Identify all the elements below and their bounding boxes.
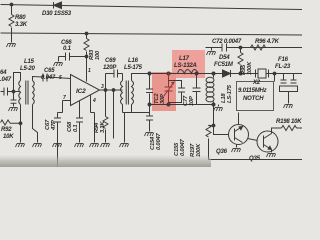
crystal X2 xyxy=(256,70,269,78)
wire stub x124 xyxy=(124,113,126,143)
wire segment pin7/C67 xyxy=(58,112,63,114)
svg-text:R92: R92 xyxy=(1,127,12,133)
wire pin 7 stub xyxy=(63,101,71,113)
svg-text:LS-132A: LS-132A xyxy=(174,63,197,69)
node junction C66/R93 xyxy=(85,55,88,58)
resistor R92 xyxy=(1,120,21,125)
svg-text:L16: L16 xyxy=(128,58,139,64)
ground (F16) xyxy=(284,105,293,109)
wire Q36 to Q35 xyxy=(248,139,258,141)
capacitor C72 xyxy=(222,44,227,52)
svg-text:R96 4.7K: R96 4.7K xyxy=(255,39,280,45)
svg-text:LS-175: LS-175 xyxy=(227,84,233,103)
svg-text:D54: D54 xyxy=(219,55,230,61)
wire tap to winding xyxy=(14,91,21,93)
wire C69 riser xyxy=(105,74,107,91)
inductor L18 xyxy=(213,74,215,105)
ground (x37) xyxy=(33,144,42,148)
svg-text:Q35: Q35 xyxy=(249,156,261,162)
svg-text:64: 64 xyxy=(0,70,7,76)
ground (L15 cap) xyxy=(9,108,18,112)
resistor R197 xyxy=(208,126,210,160)
capacitor C64 xyxy=(1,91,14,93)
transistor Q36 xyxy=(229,125,249,145)
wire main mid rail y73 xyxy=(150,73,303,75)
node junction L18 top xyxy=(212,72,215,75)
transformer L16 xyxy=(122,74,124,81)
svg-text:30P: 30P xyxy=(160,94,166,104)
node junction C155 top xyxy=(195,72,198,75)
node junction R93 rail B xyxy=(85,32,88,35)
svg-text:3.3K: 3.3K xyxy=(15,22,28,28)
notch filter box xyxy=(237,82,274,111)
ground (R80) xyxy=(7,44,16,48)
svg-text:X2: X2 xyxy=(252,80,261,86)
svg-text:R198 10K: R198 10K xyxy=(276,119,302,125)
wire rail A top xyxy=(1,5,303,10)
wire bottom rail right xyxy=(209,159,303,161)
wire L16 secondary top xyxy=(132,74,150,81)
node junction C64 tap xyxy=(12,90,15,93)
svg-text:0.047: 0.047 xyxy=(41,75,56,81)
transistor Q35 xyxy=(257,131,278,152)
resistor R198 xyxy=(282,126,303,131)
ground (Q35) xyxy=(267,154,276,158)
wire Q35 collector xyxy=(272,128,282,134)
node junction box corner xyxy=(273,72,276,75)
resistor R94 xyxy=(105,90,107,143)
node junction R92 xyxy=(19,122,22,125)
node junction x213 xyxy=(212,124,215,127)
wire output pin 3 xyxy=(100,89,123,91)
node junction L18 bottom xyxy=(212,103,215,106)
svg-text:9.0115MHz: 9.0115MHz xyxy=(238,88,267,94)
capacitor C66 xyxy=(59,56,87,58)
wire rail B second xyxy=(1,33,303,35)
svg-text:47P: 47P xyxy=(51,120,57,131)
resistor R96 xyxy=(251,45,266,50)
svg-text:FL-23: FL-23 xyxy=(275,64,291,70)
svg-text:1: 1 xyxy=(88,68,91,74)
svg-text:L5-175: L5-175 xyxy=(124,65,143,71)
wire ground drop x113 xyxy=(113,90,115,113)
svg-text:120P: 120P xyxy=(103,65,117,71)
node junction R95 top xyxy=(239,46,242,49)
svg-text:Q36: Q36 xyxy=(216,149,228,155)
svg-text:3.3K: 3.3K xyxy=(100,121,106,133)
svg-text:10K: 10K xyxy=(3,134,14,140)
resistor R93 xyxy=(86,34,88,82)
svg-text:L5-20: L5-20 xyxy=(20,66,36,72)
svg-text:R80: R80 xyxy=(15,15,26,21)
capacitor C154 xyxy=(149,105,151,132)
wire pin 1 (top edge) xyxy=(86,57,88,82)
wire C72/R96 line xyxy=(206,47,303,49)
svg-text:C69: C69 xyxy=(105,58,116,64)
svg-text:10P: 10P xyxy=(189,96,195,106)
capacitor C67 xyxy=(57,113,59,168)
svg-text:100K: 100K xyxy=(196,143,202,157)
trimmer capacitor TC xyxy=(168,74,170,105)
resistor R80 xyxy=(11,5,13,43)
ground (Q36) xyxy=(232,149,241,153)
op-amp IC2 xyxy=(71,75,100,106)
ground (C154) xyxy=(145,133,154,137)
ground (C67) xyxy=(53,144,62,148)
svg-text:0.1: 0.1 xyxy=(73,125,79,132)
wire C72 left stub xyxy=(211,48,213,51)
svg-text:D30 1SS53: D30 1SS53 xyxy=(42,11,72,17)
node junction R95 bottom xyxy=(239,72,242,75)
ground (C68) xyxy=(75,144,84,148)
ceramic filter F16 xyxy=(284,74,294,80)
node junction x149 xyxy=(148,72,151,75)
pink highlight box L17 xyxy=(172,50,205,78)
svg-text:.047: .047 xyxy=(0,77,12,83)
wire L15 windings down xyxy=(21,105,38,143)
wire Q36 emitter to ground xyxy=(236,144,238,148)
node junction tank left bottom xyxy=(148,103,151,106)
svg-text:C72 0.0047: C72 0.0047 xyxy=(212,39,242,45)
capacitor C155 xyxy=(196,74,198,105)
svg-text:3: 3 xyxy=(101,84,104,90)
capacitor C77 xyxy=(169,81,182,103)
ground (C72 stub) xyxy=(207,52,216,56)
ground (C66) xyxy=(54,63,63,67)
wire stub x94 xyxy=(94,113,96,143)
svg-text:4: 4 xyxy=(92,98,96,104)
svg-text:0.1: 0.1 xyxy=(63,46,72,52)
resistor R95 xyxy=(240,48,242,74)
svg-text:C65: C65 xyxy=(44,68,55,74)
wire Q35 emitter to ground xyxy=(271,150,273,153)
pink highlight box trimmer xyxy=(152,72,176,111)
svg-text:7: 7 xyxy=(63,95,66,101)
svg-text:5: 5 xyxy=(59,75,62,81)
inductor L17 xyxy=(178,70,199,74)
svg-text:0.0047: 0.0047 xyxy=(180,138,186,156)
svg-text:FC51M: FC51M xyxy=(214,62,234,68)
wire output drop lower xyxy=(113,113,115,139)
bottom scan shadow xyxy=(0,155,211,167)
svg-text:0.0047: 0.0047 xyxy=(156,132,162,150)
wire tank to Q36 xyxy=(214,105,229,135)
svg-text:100K: 100K xyxy=(247,61,253,75)
svg-text:L17: L17 xyxy=(179,56,190,62)
diode D54 xyxy=(223,70,231,77)
svg-text:L15: L15 xyxy=(24,59,35,65)
svg-text:100: 100 xyxy=(95,50,101,60)
transformer L15 xyxy=(19,81,21,105)
wire Q36 collector xyxy=(238,113,240,125)
svg-text:NOTCH: NOTCH xyxy=(243,96,264,102)
capacitor C69 xyxy=(106,73,123,75)
wire segment L16 bottoms xyxy=(123,112,150,114)
capacitor C65 xyxy=(33,77,71,81)
capacitor C68 xyxy=(79,101,81,143)
wire C66 left stub xyxy=(58,57,60,62)
ground (L18) xyxy=(218,105,220,107)
svg-text:F16: F16 xyxy=(278,57,289,63)
diode D30 xyxy=(53,2,55,9)
ground (R94) xyxy=(101,144,110,148)
node junction output xyxy=(104,89,107,92)
svg-text:IC2: IC2 xyxy=(76,88,86,95)
wire R197 hang xyxy=(209,125,214,127)
node junction trimmer bottom xyxy=(167,103,170,106)
capacitor (L15 bottom cap) xyxy=(13,92,15,107)
capacitor (across L16) xyxy=(149,74,151,105)
node junction trimmer top xyxy=(167,72,170,75)
wire segment pin4/x94 xyxy=(91,112,95,114)
paper background xyxy=(0,0,302,167)
ground (x124) xyxy=(120,144,129,148)
ground (x94) xyxy=(90,144,99,148)
wire L16 bottoms xyxy=(123,105,132,113)
wire pin 4 xyxy=(90,95,92,113)
ground (R92) xyxy=(16,144,25,148)
node junction R80 xyxy=(10,3,13,6)
wire L15 primary top xyxy=(14,73,21,92)
wire tank bottom xyxy=(150,104,214,106)
